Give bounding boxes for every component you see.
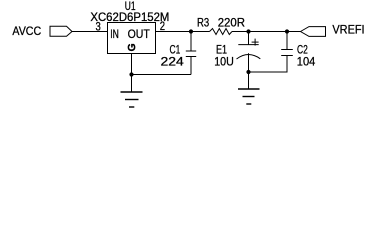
junction at E1 tap [246, 29, 250, 33]
wire R3 to VREFI [232, 31, 301, 33]
ground (right) [238, 72, 260, 104]
capacitor E1 (polarized) [237, 32, 261, 73]
port AVCC [12, 24, 72, 38]
U1 ground pin [131, 54, 133, 75]
svg-text:220R: 220R [218, 16, 246, 30]
svg-text:10U: 10U [214, 55, 234, 69]
regulator U1 body [108, 23, 156, 54]
junction at C1 tap [189, 29, 193, 33]
junction at ground node [129, 72, 133, 76]
svg-text:OUT: OUT [128, 27, 151, 41]
port VREFI [301, 23, 365, 37]
svg-text:R3: R3 [197, 15, 209, 29]
wire C1 bottom to ground node [132, 74, 192, 76]
junction below E1 [246, 70, 250, 74]
svg-text:AVCC: AVCC [12, 24, 41, 38]
capacitor C2 [281, 32, 293, 56]
wire U1 pin 2 to R3 [156, 31, 210, 33]
svg-text:104: 104 [297, 55, 316, 69]
ground (left) [121, 75, 143, 108]
svg-text:XC62D6P152M: XC62D6P152M [90, 10, 169, 24]
wire AVCC to U1 pin 3 [72, 31, 108, 33]
capacitor C1 [186, 32, 196, 75]
svg-text:IN: IN [110, 27, 119, 41]
svg-text:224: 224 [161, 55, 185, 69]
svg-text:G: G [127, 43, 138, 51]
junction at C2 tap [285, 29, 289, 33]
svg-text:VREFI: VREFI [332, 23, 364, 37]
wire C2 bottom to E1 ground node [249, 56, 288, 73]
resistor R3 [210, 29, 233, 35]
